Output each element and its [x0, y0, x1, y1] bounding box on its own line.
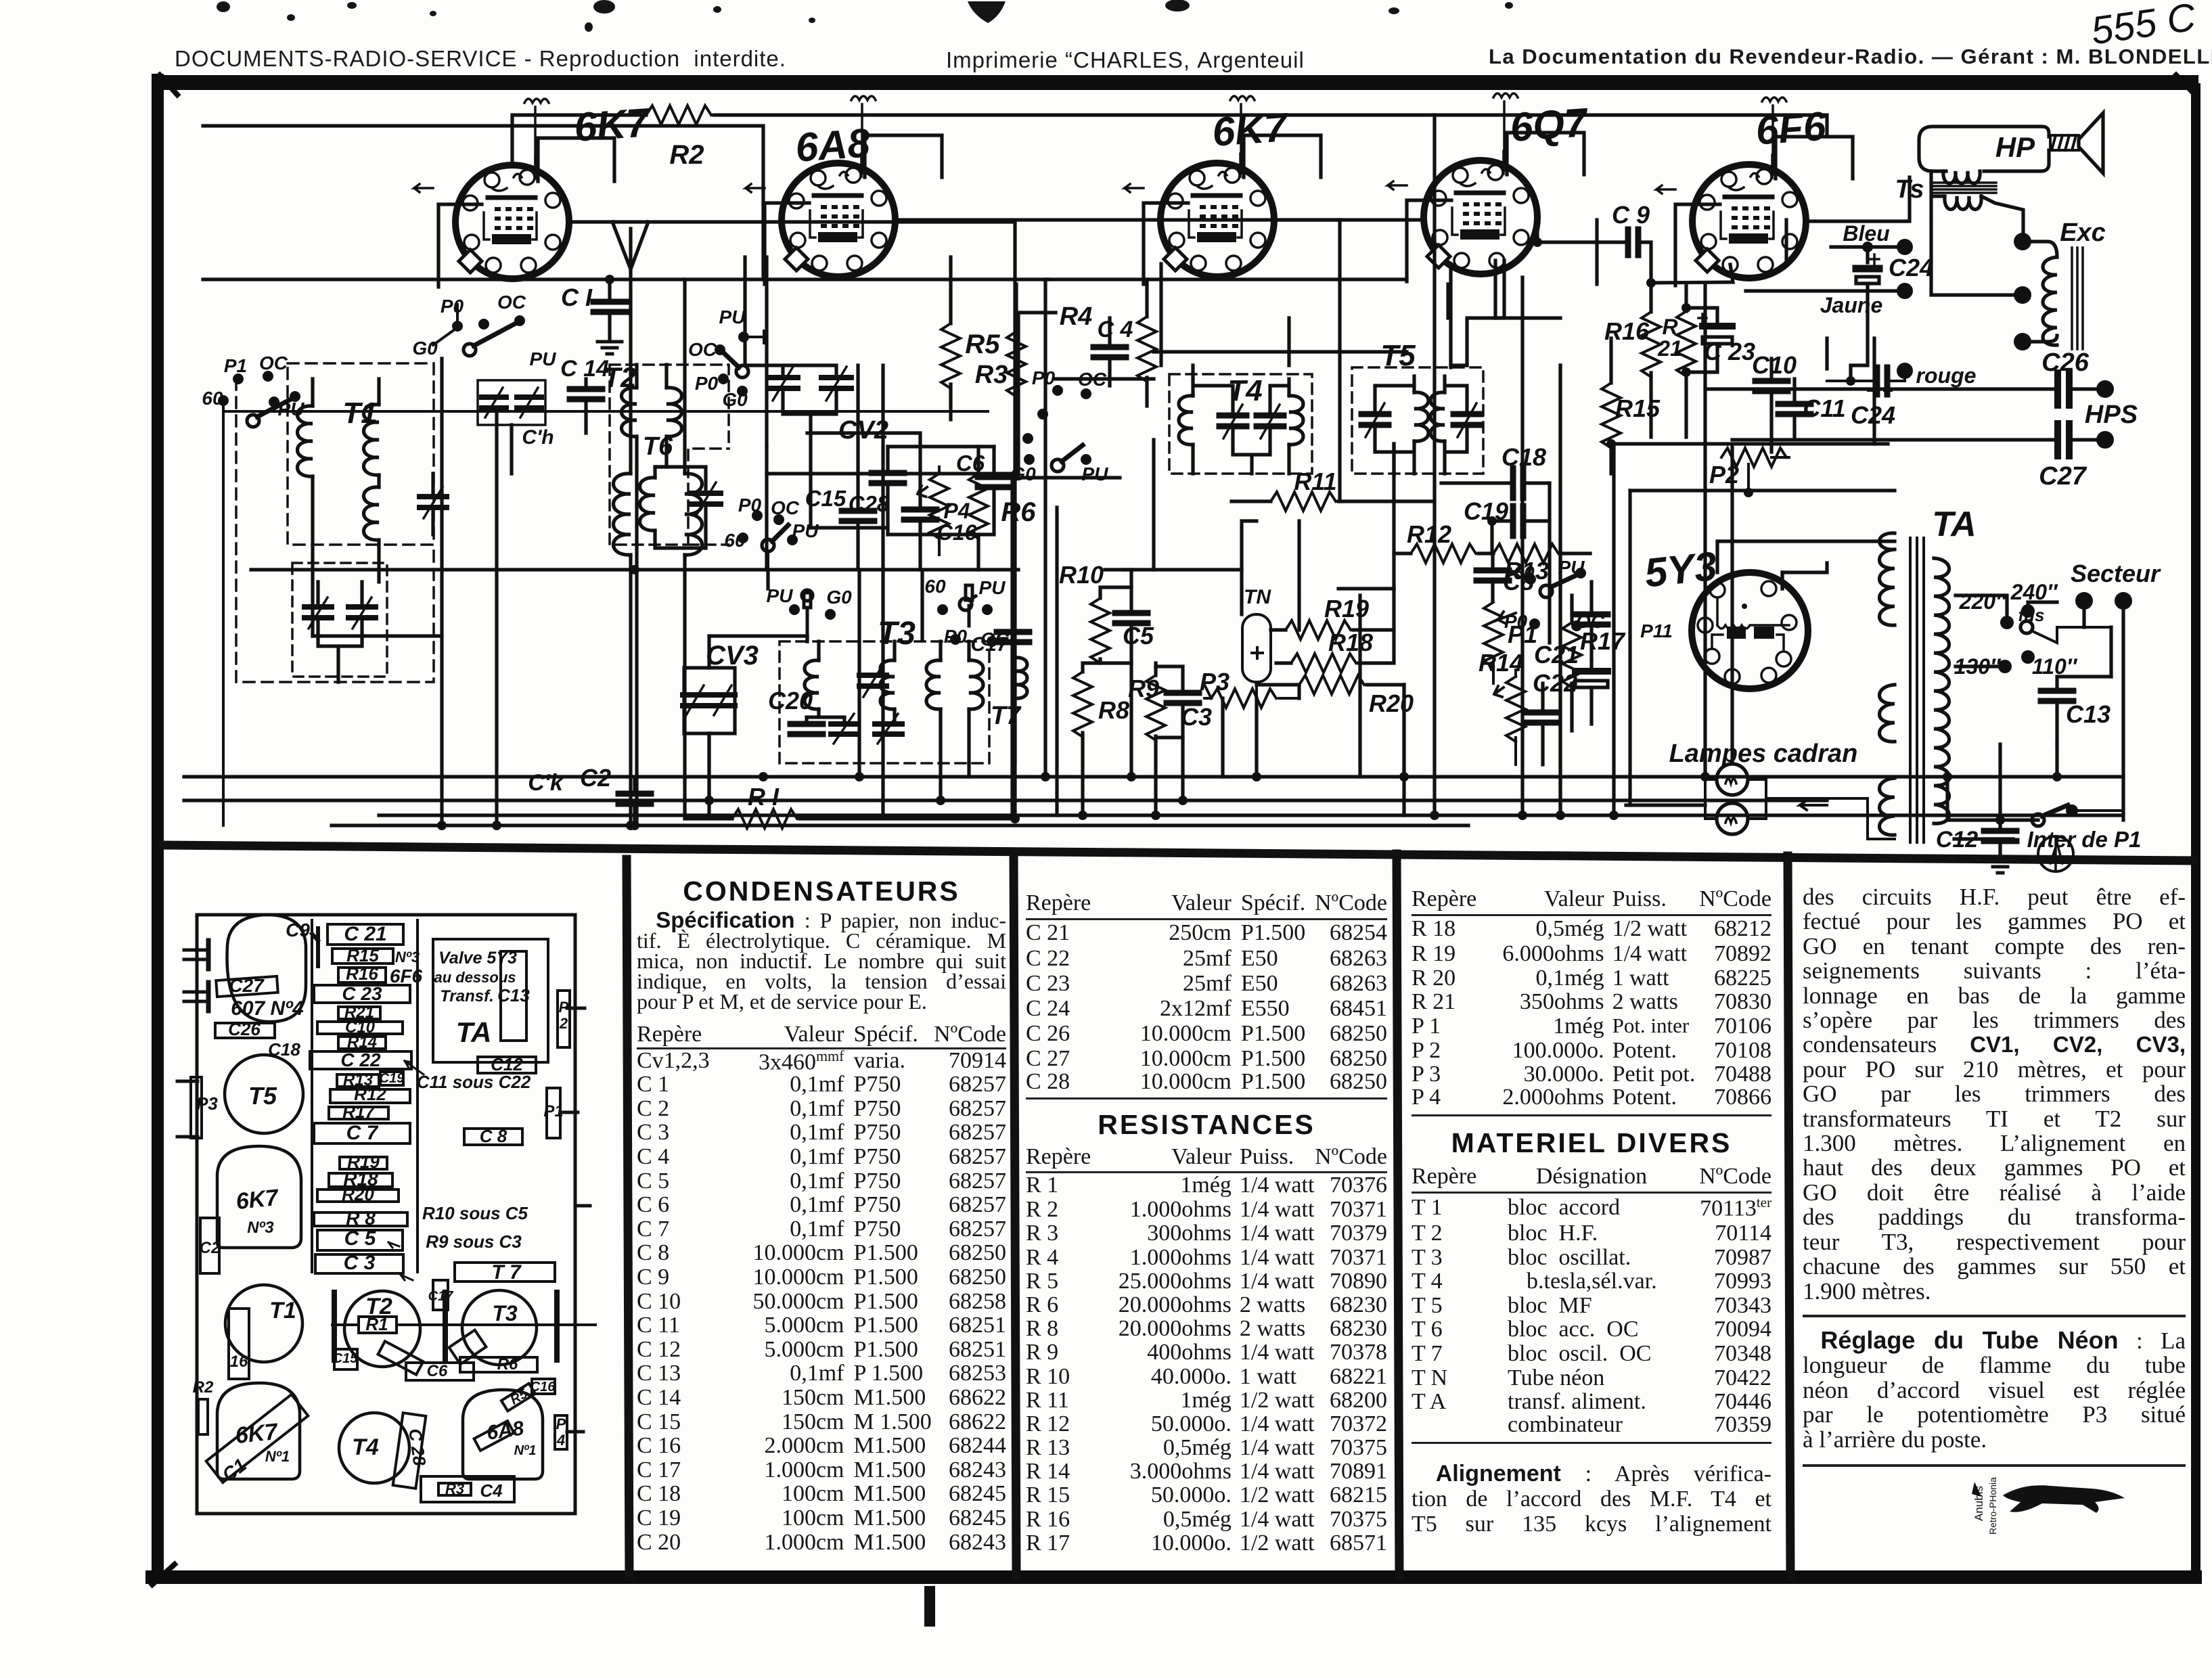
wire T1 secondary leads	[377, 379, 380, 582]
Anubis Retro-PHonia logo	[1962, 1455, 2138, 1536]
capacitor C22 electrolytic	[1575, 671, 1608, 687]
capacitor C28	[872, 473, 904, 483]
top cap heater glyph V4	[1493, 93, 1518, 171]
svg-text:C′h: C′h	[522, 426, 554, 449]
svg-text:R9: R9	[1128, 675, 1159, 702]
tube 607 N4 outline	[227, 915, 307, 1022]
capacitor C12	[1984, 831, 2016, 841]
Exc core lines	[2072, 248, 2083, 349]
caps C20 pair	[790, 724, 823, 734]
wire T2 secondary	[655, 467, 706, 548]
svg-text:T 7: T 7	[491, 1261, 522, 1284]
ground bus bottom	[332, 823, 1468, 827]
svg-text:PU: PU	[767, 585, 794, 606]
resistor R12	[1411, 544, 1476, 563]
svg-text:R2: R2	[193, 1378, 214, 1397]
wire R14 arrow	[1494, 670, 1516, 765]
switch Inter de P1	[2032, 814, 2044, 826]
header center text	[946, 47, 1305, 73]
Exc terminals	[2014, 233, 2031, 350]
svg-text:R14: R14	[1479, 649, 1523, 677]
svg-text:R6: R6	[1001, 497, 1036, 527]
wire C16	[807, 433, 920, 570]
lamp L1 filament	[1725, 779, 1736, 784]
svg-text:60: 60	[202, 388, 223, 409]
bottom center tick mark	[924, 1586, 935, 1627]
HP speaker coil	[1943, 171, 1980, 183]
wire C27	[1732, 438, 2096, 441]
svg-text:C8: C8	[1503, 568, 1534, 595]
svg-text:5Y3: 5Y3	[1642, 543, 1719, 596]
svg-text:P1: P1	[543, 1102, 563, 1120]
svg-text:C12: C12	[491, 1054, 523, 1074]
coil T6 secondary	[685, 474, 702, 555]
CV2 wires	[748, 365, 836, 528]
transformer TA bottom coil	[1880, 778, 1895, 835]
svg-text:21: 21	[1657, 336, 1682, 361]
svg-text:C18: C18	[268, 1039, 300, 1060]
resistor R19	[1286, 620, 1351, 639]
terminal Secteur a	[2075, 592, 2093, 610]
wire R16/R21	[1651, 265, 1733, 437]
wire C26	[1705, 387, 2096, 390]
wire T3 internals	[807, 641, 969, 763]
part R1 box	[359, 1317, 397, 1333]
svg-text:C 22: C 22	[340, 1049, 381, 1070]
svg-text:P0: P0	[441, 296, 464, 317]
header left text	[175, 46, 786, 72]
coil TS secondary	[1945, 196, 1981, 210]
svg-text:Lampes cadran: Lampes cadran	[1669, 740, 1858, 768]
part R2 small box	[198, 1399, 208, 1434]
coil T5 b	[1430, 392, 1445, 441]
wire T1 primary	[311, 379, 314, 636]
part R17 box	[329, 1107, 388, 1119]
part C21 box	[328, 924, 403, 945]
wire C5	[1129, 570, 1133, 663]
chassis inner rails	[312, 920, 417, 1272]
junction dot R15	[1606, 439, 1616, 449]
wire T4 internals	[1193, 379, 1289, 474]
svg-text:G0: G0	[1010, 463, 1036, 484]
lamp L2	[1717, 803, 1748, 834]
wire C12	[1947, 820, 2038, 858]
header right text	[1489, 45, 2212, 69]
svg-text:R9 sous C3: R9 sous C3	[426, 1231, 522, 1252]
capacitor C13	[2041, 691, 2073, 701]
svg-text:T1: T1	[269, 1298, 296, 1323]
wire R17	[1570, 595, 1573, 731]
x arrow V5	[1656, 185, 1675, 194]
wire C24b	[1827, 371, 1905, 381]
part P1 tab	[547, 1088, 560, 1138]
part C27 box	[216, 976, 277, 997]
wire V3 plate right	[1274, 218, 1424, 221]
tube T2 circle	[344, 1291, 420, 1367]
coil T3 a	[805, 660, 819, 709]
svg-text:R17: R17	[1580, 627, 1626, 655]
part T7 box	[455, 1263, 555, 1282]
wire CK	[510, 425, 513, 474]
resistor R17	[1562, 622, 1581, 687]
svg-text:TA: TA	[456, 1016, 492, 1048]
wire V2 down to switch	[743, 257, 746, 365]
wire C6	[888, 447, 994, 535]
top cap heater glyph V1	[524, 99, 549, 175]
svg-text:TN: TN	[1244, 586, 1271, 608]
wire middle verticals 2	[709, 570, 859, 641]
wire C2	[633, 777, 636, 825]
terminal Bleu	[1897, 239, 1913, 255]
svg-text:P3: P3	[1200, 668, 1229, 696]
wire trunk verticals all	[709, 220, 2057, 820]
tube V6 5Y3	[1692, 572, 1808, 689]
wire P2	[1748, 457, 1789, 493]
svg-text:C 9: C 9	[1612, 201, 1650, 229]
svg-text:G0: G0	[412, 338, 438, 359]
capacitor C27 inline	[2058, 424, 2069, 456]
svg-text:C 8: C 8	[480, 1126, 507, 1146]
svg-text:Valve 5Y3: Valve 5Y3	[438, 949, 517, 968]
CV gang bars	[334, 1292, 557, 1360]
resistor R4	[1137, 317, 1156, 382]
part R12 box	[330, 1089, 410, 1103]
trimmer cap T1	[420, 487, 447, 518]
svg-text:Nº1: Nº1	[265, 1448, 290, 1465]
svg-text:6K7: 6K7	[234, 1419, 280, 1449]
wire TA secondary taps	[1954, 595, 2013, 839]
capacitor C6	[978, 477, 1010, 487]
svg-text:HPS: HPS	[2085, 401, 2138, 429]
wire TS secondary leads	[1806, 171, 2023, 295]
capacitor C18 inline	[1513, 468, 1523, 498]
svg-text:C 5: C 5	[344, 1227, 377, 1250]
svg-text:PU: PU	[278, 399, 305, 419]
capacitor C3	[1167, 693, 1199, 703]
resistor R5	[941, 323, 960, 388]
part R16 box	[338, 968, 386, 982]
box around S3	[1018, 313, 1120, 478]
wire right trunk verticals	[1394, 115, 1630, 815]
bus bottom C	[379, 813, 2123, 817]
terminal rouge	[1897, 363, 1913, 379]
CV3 trimmer b	[710, 685, 735, 715]
resistor R2	[646, 106, 711, 124]
wire P3 arrow	[1204, 685, 1299, 698]
resistor R20	[1299, 675, 1364, 694]
resistor R9	[1146, 675, 1165, 740]
svg-text:C24: C24	[1889, 254, 1933, 281]
trimmer CK a	[482, 388, 506, 417]
PO/GO contact pair right	[1022, 409, 1048, 444]
svg-text:R16: R16	[346, 963, 378, 984]
bus bottom A	[184, 775, 2123, 778]
wire C9	[1537, 223, 1651, 283]
wire R11	[1232, 499, 1435, 503]
svg-text:P3: P3	[196, 1093, 218, 1114]
scan noise blobs top edge	[217, 0, 1513, 32]
svg-text:R1: R1	[365, 1314, 388, 1334]
coil T6 primary	[614, 474, 631, 555]
transformer TS core	[1931, 183, 1996, 193]
part R13 box	[337, 1074, 379, 1087]
part R3 inner	[438, 1483, 471, 1495]
svg-text:P2: P2	[1709, 461, 1739, 489]
PO OC dots under T3 switch	[950, 634, 997, 647]
svg-text:T7: T7	[991, 702, 1022, 730]
wire R1	[685, 817, 1015, 820]
switch cluster S3 (PO/OC/GO/PU)	[1024, 385, 1091, 472]
resistor R6	[969, 474, 988, 539]
CV2 trimmer a	[768, 367, 798, 401]
resistor R14	[1506, 677, 1525, 742]
top cap heater glyph V3	[1230, 96, 1255, 173]
wire C28	[886, 447, 889, 535]
part C16 box	[532, 1379, 555, 1394]
capacitor C8	[1476, 570, 1509, 581]
resistor R13	[1493, 544, 1558, 563]
svg-text:R 8: R 8	[346, 1208, 376, 1229]
wire C11	[1792, 379, 1796, 438]
horizontal divider between schematic and tables	[164, 845, 2192, 861]
coil T1 secondary	[364, 405, 380, 475]
transformer TA core	[1910, 538, 1924, 842]
resistor R10	[1091, 598, 1110, 663]
svg-text:240″: 240″	[2010, 580, 2058, 604]
svg-text:16: 16	[230, 1353, 248, 1371]
pin stubs right edge	[560, 1008, 590, 1432]
potentiometer P1	[1484, 602, 1503, 667]
svg-text:T5: T5	[1380, 339, 1416, 372]
coil T3 d	[969, 660, 983, 709]
svg-text:C15: C15	[333, 1351, 359, 1366]
svg-text:Tranѕf.: Tranѕf.	[440, 987, 494, 1005]
coil T3 c	[926, 660, 941, 709]
wire trimmer T1	[431, 474, 434, 535]
wire V1 to R2	[512, 115, 646, 165]
terminal Jaune	[1897, 283, 1913, 299]
svg-text:C27: C27	[2039, 462, 2087, 491]
wire bus y608	[223, 410, 988, 413]
wire C15	[856, 365, 859, 570]
svg-text:C3: C3	[1181, 703, 1212, 731]
wire 6Q7 to T5	[1451, 260, 1504, 367]
wire R6	[976, 447, 980, 570]
svg-text:60: 60	[724, 530, 746, 551]
svg-text:P0: P0	[1032, 367, 1056, 388]
svg-text:C12: C12	[1936, 827, 1978, 853]
svg-text:C24: C24	[1851, 401, 1895, 429]
part C14 diagonal	[449, 1330, 487, 1365]
tube 6K7 N3 rounded box	[217, 1146, 301, 1248]
tube V5 6F6	[1692, 155, 1806, 278]
svg-text:PU: PU	[719, 307, 746, 327]
wire T5 internals	[1375, 376, 1467, 474]
svg-text:C11: C11	[1803, 394, 1845, 422]
potentiometer P4	[930, 474, 949, 539]
tube 6K7 N1 box	[217, 1383, 300, 1479]
svg-text:R18: R18	[1328, 629, 1373, 656]
svg-text:OC: OC	[1078, 369, 1107, 390]
svg-text:R20: R20	[1369, 689, 1414, 717]
part P4 tab	[555, 1415, 567, 1449]
CV2 trimmer b	[821, 367, 851, 401]
fuse fus	[2021, 621, 2033, 633]
svg-text:4: 4	[556, 1432, 565, 1449]
capacitor C2	[618, 794, 651, 804]
svg-text:C18: C18	[1502, 443, 1546, 471]
svg-text:au dessous: au dessous	[434, 969, 516, 986]
svg-text:P0: P0	[944, 626, 968, 647]
part C28 vertical	[393, 1413, 426, 1489]
svg-text:C 4: C 4	[1098, 317, 1133, 342]
capacitor C24a electrolytic	[1856, 254, 1884, 291]
svg-text:Secteur: Secteur	[2071, 560, 2161, 587]
wire top bus left	[203, 277, 685, 281]
trimmer CV1a	[304, 597, 332, 629]
svg-text:G0: G0	[826, 587, 852, 608]
svg-text:PU: PU	[1082, 463, 1109, 484]
coil T1 tertiary	[364, 487, 380, 540]
svg-text:R10 sous C5: R10 sous C5	[422, 1203, 528, 1223]
svg-text:C20: C20	[768, 687, 813, 715]
svg-text:C17: C17	[428, 1289, 454, 1304]
svg-text:C 23: C 23	[342, 983, 382, 1004]
svg-text:CV2: CV2	[838, 416, 888, 445]
tap dot 240	[2021, 604, 2035, 618]
resistor R21	[1677, 311, 1696, 376]
svg-text:G0: G0	[722, 389, 748, 410]
wire grid bus y186	[203, 126, 763, 279]
part C13 box	[501, 951, 526, 1041]
svg-text:T4: T4	[1227, 374, 1262, 407]
svg-text:P: P	[556, 1415, 566, 1432]
part C11 diagonal	[378, 1341, 424, 1374]
wire Bleu	[1831, 247, 1897, 263]
tube T3 circle	[462, 1290, 537, 1365]
potentiometer P2	[1721, 448, 1786, 467]
wire R20	[1257, 683, 1404, 686]
wire C4	[1108, 318, 1111, 386]
svg-text:PU: PU	[979, 577, 1006, 598]
svg-text:Nº1: Nº1	[514, 1443, 537, 1458]
capacitor C15	[842, 511, 874, 521]
svg-text:R3: R3	[445, 1480, 464, 1497]
wire secteur drops	[2084, 601, 2123, 820]
part C3 box	[315, 1254, 403, 1273]
HP horn	[2079, 113, 2103, 173]
svg-text:P1: P1	[224, 355, 247, 376]
svg-text:C13: C13	[2066, 700, 2111, 728]
part C5 box	[317, 1230, 403, 1250]
CV3 trimmer a	[683, 685, 707, 715]
part C4/R3 box	[421, 1476, 514, 1502]
svg-text:P: P	[559, 999, 569, 1016]
wire V1 plate right	[569, 220, 1015, 223]
part C22 box	[310, 1051, 411, 1069]
svg-text:R3: R3	[975, 361, 1008, 389]
svg-text:C27: C27	[229, 975, 265, 996]
svg-text:Exc: Exc	[2060, 219, 2106, 247]
svg-text:C 7: C 7	[346, 1122, 379, 1144]
switch cluster S1a (PO/OC/GO/PU)	[269, 304, 525, 407]
grid-cap box V1	[438, 138, 614, 287]
grid-cap box V3	[1144, 135, 1321, 284]
HP voice coil hatch	[2050, 135, 2079, 150]
svg-text:C 14: C 14	[560, 356, 609, 382]
T5 dashed box	[1352, 367, 1483, 474]
coil T4 secondary	[1289, 396, 1303, 445]
CV3 box	[684, 668, 735, 733]
wire R9	[1154, 663, 1157, 815]
svg-text:R5: R5	[965, 330, 1000, 359]
svg-text:R8: R8	[1098, 696, 1129, 724]
resistor R15	[1602, 383, 1621, 448]
svg-text:T5: T5	[248, 1082, 277, 1110]
part C17 vbox	[433, 1280, 448, 1310]
junction dot P2	[1744, 488, 1753, 497]
wire T6 secondary leads	[683, 279, 686, 815]
tube V3 6K7	[1160, 154, 1274, 277]
wire V3 cathode to T4	[1161, 264, 1289, 379]
T3 dashed box	[780, 641, 989, 763]
T1 block dashed box	[288, 363, 434, 545]
resistor R3	[1007, 332, 1026, 396]
svg-text:T6: T6	[643, 432, 673, 461]
chassis pin lugs left edge	[177, 950, 208, 1137]
svg-text:C I: C I	[561, 284, 593, 311]
wire R3	[1014, 284, 1018, 440]
capacitor C23 electrolytic	[1698, 314, 1732, 344]
capacitor C9	[1628, 229, 1638, 255]
resistor R18	[1291, 654, 1356, 673]
tube T1 circle	[225, 1285, 302, 1362]
coil T2 primary left	[622, 388, 637, 436]
wire mid-left horizontals	[251, 570, 1018, 636]
part C1 diagonal box	[206, 1394, 309, 1482]
wire R5	[949, 257, 952, 419]
svg-text:6F6: 6F6	[390, 966, 423, 987]
trimmer T3	[859, 666, 886, 697]
CV1 dashed box	[292, 563, 387, 677]
part R21 box	[338, 1007, 380, 1019]
wire lamps	[1705, 779, 1895, 839]
capacitor C4	[1093, 347, 1126, 357]
svg-text:6F6: 6F6	[1755, 103, 1828, 153]
svg-text:6K7: 6K7	[572, 99, 652, 150]
wire C1 leads	[608, 279, 611, 338]
wire extra verticals right-middle	[1242, 220, 1495, 777]
vertical divider col4/col5	[1788, 856, 1790, 1577]
capacitor C1	[593, 302, 626, 312]
svg-text:R4: R4	[1060, 302, 1093, 331]
coil T4 primary	[1179, 396, 1193, 445]
coil T2 secondary	[640, 478, 656, 530]
svg-text:Ts: Ts	[1895, 175, 1924, 204]
trimmer T5 a	[1361, 403, 1389, 437]
tap dot 130	[1998, 660, 2012, 673]
svg-text:R19: R19	[1324, 595, 1369, 622]
switch cluster S4 GO/PU	[1525, 568, 1586, 631]
TN electrode	[1252, 648, 1263, 698]
transformer TA secondary coil	[1934, 558, 1949, 823]
part R? diagonal 6A8	[474, 1421, 514, 1451]
HP speaker body	[1919, 127, 2049, 171]
svg-text:HP: HP	[1995, 131, 2035, 163]
trimmer T2	[691, 482, 721, 516]
wire trimmer T2	[655, 467, 706, 548]
junction dot C24b	[1846, 376, 1855, 386]
